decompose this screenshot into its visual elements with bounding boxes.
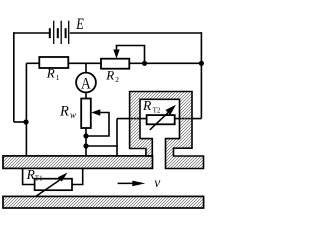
svg-text:v: v — [154, 175, 160, 190]
svg-text:1: 1 — [56, 73, 60, 82]
svg-text:A: A — [81, 75, 91, 92]
wire Rw bottom — [85, 128, 87, 157]
resistor R1 — [39, 57, 68, 68]
wire R1 run — [26, 62, 39, 64]
wire left outer vertical — [13, 32, 15, 122]
resistor RT2 — [147, 115, 175, 124]
node Rw wiper junction — [83, 133, 88, 138]
rail top — [3, 156, 153, 169]
rheostat Rw box — [81, 99, 91, 129]
wire ammeter to Rw — [85, 92, 87, 99]
svg-text:2: 2 — [115, 75, 119, 84]
velocity arrow — [118, 181, 146, 187]
wire R2 to right — [129, 62, 202, 64]
resistor RT1 — [35, 179, 72, 191]
svg-text:T2: T2 — [153, 106, 161, 114]
wire stub to ammeter — [85, 63, 87, 73]
wiper arrow R2 — [113, 46, 144, 64]
node coil junction — [83, 143, 88, 148]
rail bottom — [3, 196, 204, 208]
battery E — [50, 21, 69, 44]
svg-text:R: R — [142, 98, 152, 113]
svg-text:T1: T1 — [35, 175, 43, 183]
wiper arrow Rw — [86, 109, 109, 136]
wire to magnet — [86, 145, 118, 147]
wire inner left vertical — [25, 63, 27, 156]
svg-text:R: R — [46, 66, 55, 81]
ammeter A — [76, 73, 96, 93]
node junction left — [23, 119, 28, 124]
wire top right horizontal — [70, 32, 202, 34]
arrow RT1 — [36, 173, 67, 197]
thermistor RT1 wire left — [23, 169, 35, 185]
thermistor RT1 wire right — [72, 169, 83, 185]
wire RT2 horizontal — [117, 118, 201, 120]
node right junction — [199, 61, 204, 66]
svg-text:w: w — [70, 110, 76, 120]
arrow RT2 — [150, 105, 176, 130]
wire left link horizontal — [14, 121, 27, 123]
node R2 wiper junction — [142, 61, 147, 66]
wire top left horizontal — [14, 32, 49, 34]
resistor R2 — [101, 59, 129, 69]
svg-text:R: R — [59, 103, 69, 119]
wire R1 to R2 — [68, 62, 101, 64]
magnet yoke structure — [130, 92, 204, 169]
svg-text:E: E — [75, 16, 84, 33]
svg-text:R: R — [105, 68, 114, 83]
wire RT2 left down — [116, 119, 118, 157]
wire right vertical — [200, 32, 202, 118]
